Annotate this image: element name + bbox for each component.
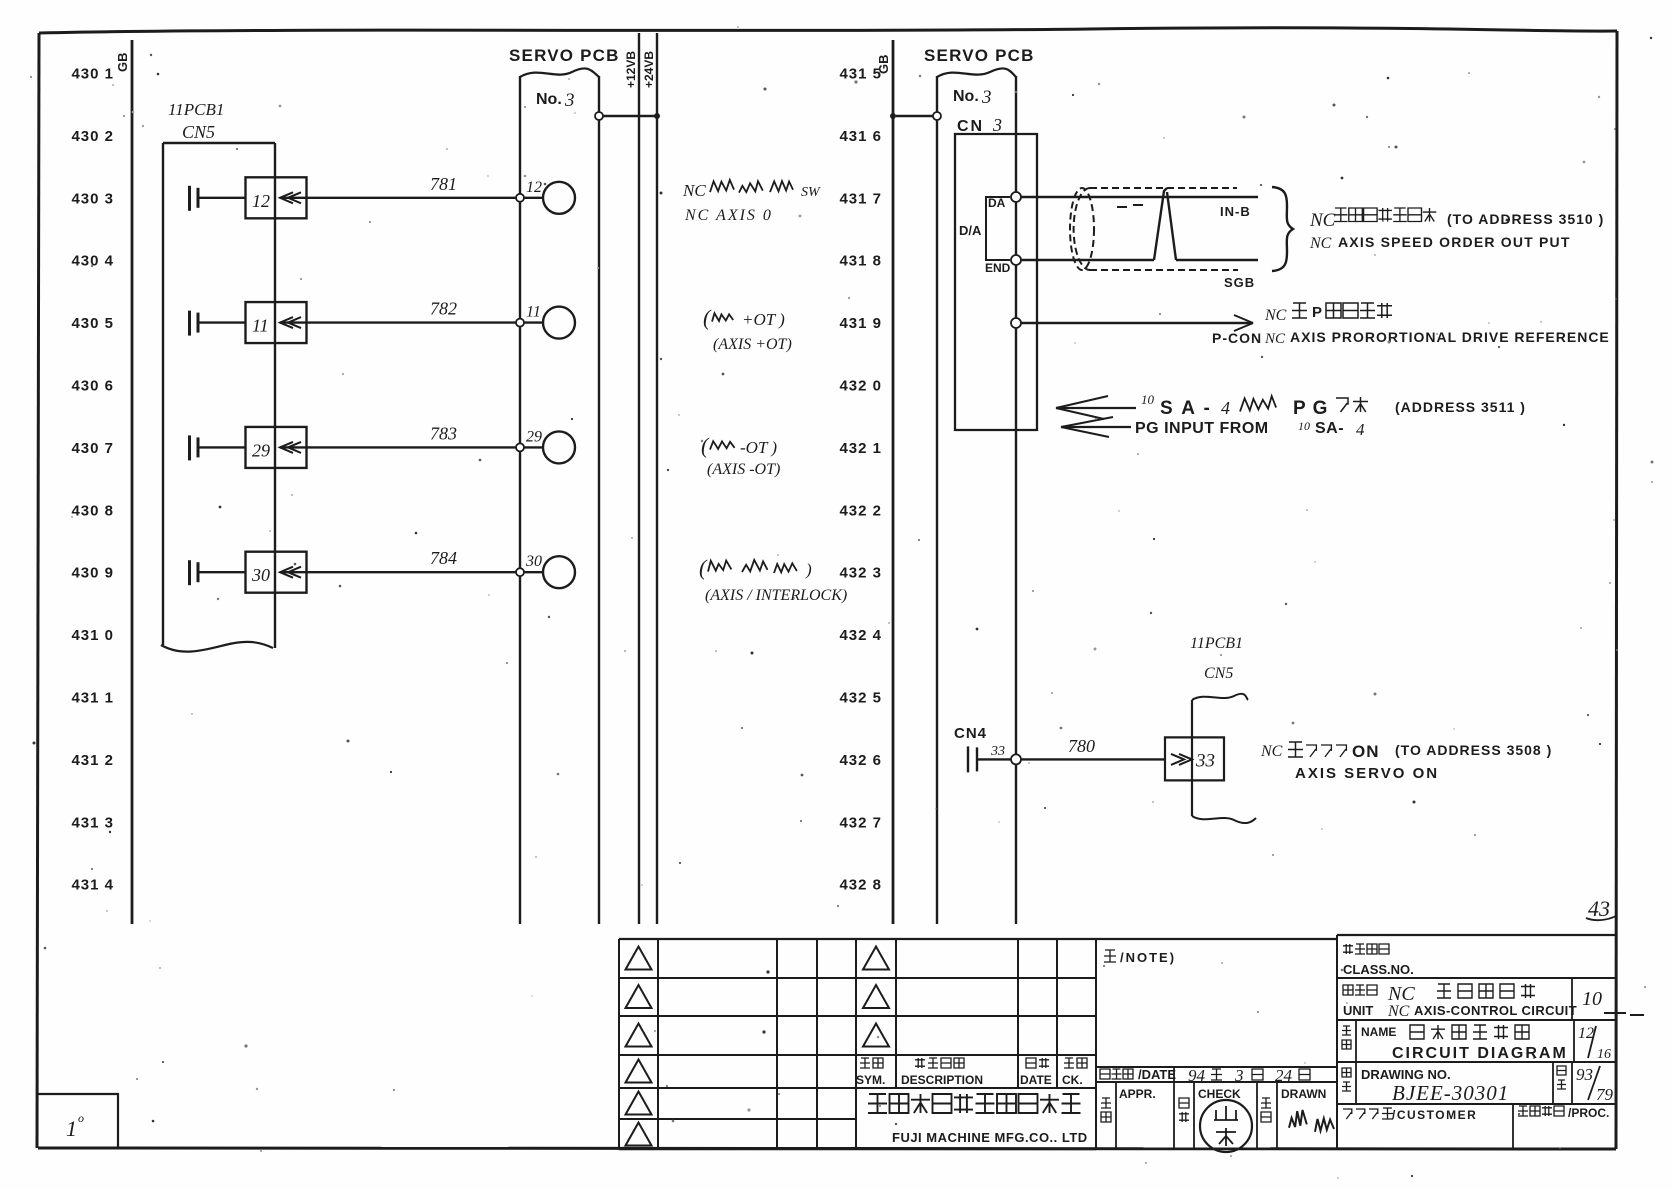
svg-text:782: 782 — [430, 299, 457, 319]
svg-text:431 1: 431 1 — [71, 690, 114, 707]
svg-text:430 3: 430 3 — [71, 190, 114, 207]
svg-text:NC: NC — [1264, 331, 1286, 347]
svg-text:33: 33 — [1195, 750, 1215, 771]
svg-text:(TO ADDRESS 3510 ): (TO ADDRESS 3510 ) — [1447, 211, 1604, 227]
svg-text:79: 79 — [1596, 1085, 1614, 1104]
svg-text:SERVO PCB: SERVO PCB — [509, 46, 620, 65]
svg-text:o: o — [78, 1111, 84, 1125]
svg-text:783: 783 — [430, 423, 457, 443]
svg-text:3: 3 — [1234, 1066, 1244, 1085]
svg-text:P G: P G — [1293, 398, 1328, 419]
svg-text:11PCB1: 11PCB1 — [1190, 635, 1243, 652]
svg-text:/CUSTOMER: /CUSTOMER — [1392, 1108, 1477, 1122]
svg-text:NC AXIS 0: NC AXIS 0 — [684, 207, 773, 224]
svg-text:29: 29 — [252, 440, 270, 460]
svg-text:12: 12 — [252, 191, 270, 211]
svg-text:431 0: 431 0 — [71, 627, 114, 644]
svg-text:30: 30 — [251, 565, 270, 585]
svg-text:784: 784 — [430, 548, 457, 568]
svg-text:(AXIS -OT): (AXIS -OT) — [707, 461, 780, 478]
svg-text:(TO ADDRESS 3508 ): (TO ADDRESS 3508 ) — [1395, 742, 1552, 758]
svg-text:AXIS SPEED ORDER OUT PUT: AXIS SPEED ORDER OUT PUT — [1338, 234, 1571, 250]
svg-text:432 8: 432 8 — [839, 877, 882, 894]
svg-text:GB: GB — [115, 53, 130, 73]
svg-text:CHECK: CHECK — [1198, 1087, 1241, 1101]
svg-text:AXIS SERVO ON: AXIS SERVO ON — [1295, 765, 1439, 782]
svg-text:430 8: 430 8 — [71, 502, 114, 519]
svg-text:432 0: 432 0 — [839, 378, 882, 395]
svg-text:/PROC.: /PROC. — [1568, 1106, 1609, 1120]
svg-text:BJEE-30301: BJEE-30301 — [1392, 1081, 1509, 1105]
svg-text:S A -: S A - — [1160, 398, 1212, 419]
svg-text:3: 3 — [992, 115, 1002, 135]
svg-text:AXIS-CONTROL CIRCUIT: AXIS-CONTROL CIRCUIT — [1414, 1003, 1577, 1018]
svg-text:NC: NC — [1387, 1003, 1410, 1020]
svg-text:30: 30 — [525, 553, 542, 570]
svg-text:ON: ON — [1352, 742, 1380, 761]
svg-text:No.: No. — [953, 88, 979, 105]
svg-text:4: 4 — [1356, 420, 1365, 439]
svg-text:UNIT: UNIT — [1343, 1003, 1373, 1018]
svg-text:CN5: CN5 — [182, 122, 215, 142]
svg-text:SYM.: SYM. — [856, 1073, 885, 1087]
svg-text:CK.: CK. — [1062, 1073, 1083, 1087]
svg-text:IN-B: IN-B — [1220, 204, 1251, 219]
svg-text:): ) — [805, 560, 812, 579]
svg-text:29: 29 — [526, 428, 542, 445]
svg-text:DA: DA — [988, 196, 1006, 210]
svg-text:NC: NC — [682, 181, 706, 200]
svg-text:D/A: D/A — [959, 223, 982, 238]
svg-text:PG INPUT FROM: PG INPUT FROM — [1135, 420, 1269, 437]
svg-text:NC: NC — [1264, 307, 1287, 324]
svg-text:3: 3 — [564, 90, 575, 111]
svg-text:4: 4 — [1221, 398, 1230, 418]
svg-text:SA-: SA- — [1315, 420, 1344, 437]
svg-text:DRAWN: DRAWN — [1281, 1087, 1326, 1101]
svg-text:SGB: SGB — [1224, 275, 1255, 290]
svg-text:94: 94 — [1188, 1066, 1206, 1085]
svg-text:NC: NC — [1309, 235, 1332, 252]
svg-text:10: 10 — [1582, 988, 1602, 1010]
svg-text:16: 16 — [1597, 1047, 1611, 1062]
svg-text:+OT ): +OT ) — [742, 310, 785, 329]
svg-text:11: 11 — [526, 304, 541, 321]
svg-text:781: 781 — [430, 174, 457, 194]
svg-text:1: 1 — [66, 1116, 77, 1141]
svg-text:430 2: 430 2 — [71, 128, 114, 145]
svg-text:431 7: 431 7 — [839, 190, 882, 207]
svg-text:NAME: NAME — [1361, 1025, 1396, 1039]
svg-text:CLASS.NO.: CLASS.NO. — [1343, 962, 1414, 977]
svg-text:431 4: 431 4 — [71, 877, 114, 894]
svg-text:24: 24 — [1275, 1066, 1293, 1085]
svg-text:(AXIS / INTERLOCK): (AXIS / INTERLOCK) — [705, 587, 847, 604]
svg-text:DATE: DATE — [1020, 1073, 1052, 1087]
svg-text:FUJI MACHINE MFG.CO.. LTD: FUJI MACHINE MFG.CO.. LTD — [892, 1130, 1088, 1145]
svg-text:431 2: 431 2 — [71, 752, 114, 769]
svg-text:432 2: 432 2 — [839, 502, 882, 519]
svg-text:NC: NC — [1260, 743, 1283, 760]
svg-text:DESCRIPTION: DESCRIPTION — [901, 1073, 983, 1087]
svg-text:DRAWING NO.: DRAWING NO. — [1361, 1067, 1451, 1082]
svg-text:P-CON: P-CON — [1212, 330, 1262, 346]
svg-text:43: 43 — [1588, 896, 1610, 921]
svg-text:432 7: 432 7 — [839, 814, 882, 831]
svg-text:432 3: 432 3 — [839, 565, 882, 582]
svg-text:431 8: 431 8 — [839, 253, 882, 270]
svg-text:SW: SW — [801, 185, 821, 200]
svg-text:11: 11 — [252, 316, 269, 336]
svg-text:+24VB: +24VB — [642, 51, 656, 88]
svg-text:-OT ): -OT ) — [740, 438, 777, 457]
svg-text:11PCB1: 11PCB1 — [168, 100, 224, 119]
svg-text:(AXIS +OT): (AXIS +OT) — [713, 336, 792, 353]
svg-text:430 5: 430 5 — [71, 315, 114, 332]
svg-text:CIRCUIT DIAGRAM: CIRCUIT DIAGRAM — [1392, 1045, 1568, 1062]
svg-text:APPR.: APPR. — [1119, 1087, 1156, 1101]
svg-text:780: 780 — [1068, 736, 1095, 756]
svg-text:CN5: CN5 — [1204, 665, 1233, 682]
svg-text:3: 3 — [981, 87, 992, 108]
svg-text:END: END — [985, 261, 1011, 275]
svg-text:430 4: 430 4 — [71, 253, 114, 270]
svg-text:10: 10 — [1141, 392, 1155, 407]
svg-text:12: 12 — [526, 179, 542, 196]
svg-text:/DATE: /DATE — [1138, 1067, 1176, 1082]
svg-text:33: 33 — [990, 744, 1005, 759]
svg-text:431 6: 431 6 — [839, 128, 882, 145]
svg-text:(ADDRESS 3511 ): (ADDRESS 3511 ) — [1395, 399, 1526, 415]
svg-text:SERVO PCB: SERVO PCB — [924, 46, 1035, 65]
svg-text:AXIS PRORORTIONAL DRIVE REFERE: AXIS PRORORTIONAL DRIVE REFERENCE — [1290, 329, 1610, 345]
svg-text:NC: NC — [1387, 983, 1415, 1005]
svg-text:P: P — [1312, 304, 1322, 321]
svg-text:CN: CN — [957, 118, 984, 135]
svg-text:432 5: 432 5 — [839, 690, 882, 707]
svg-text:12: 12 — [1578, 1025, 1594, 1042]
svg-text:+12VB: +12VB — [624, 51, 638, 88]
svg-text:93: 93 — [1576, 1065, 1593, 1084]
svg-text:432 1: 432 1 — [839, 440, 882, 457]
svg-text:431 9: 431 9 — [839, 315, 882, 332]
svg-text:431 3: 431 3 — [71, 814, 114, 831]
svg-text:430 7: 430 7 — [71, 440, 114, 457]
svg-text:430 9: 430 9 — [71, 565, 114, 582]
svg-text:430 1: 430 1 — [71, 66, 114, 83]
svg-text:432 4: 432 4 — [839, 627, 882, 644]
svg-text:CN4: CN4 — [954, 725, 987, 742]
svg-text:430 6: 430 6 — [71, 378, 114, 395]
svg-text:10: 10 — [1298, 419, 1310, 433]
svg-text:/NOTE): /NOTE) — [1120, 950, 1176, 965]
svg-text:GB: GB — [876, 55, 891, 75]
svg-text:No.: No. — [536, 91, 562, 108]
svg-text:NC: NC — [1309, 210, 1336, 231]
svg-text:432 6: 432 6 — [839, 752, 882, 769]
